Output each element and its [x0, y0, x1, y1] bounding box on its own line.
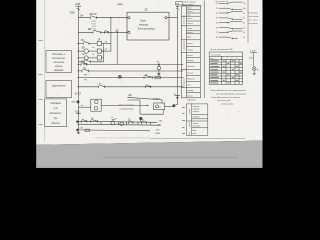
wire rung2 tail — [101, 50, 111, 52]
indicator table — [209, 52, 243, 84]
timing chart row 2 — [216, 8, 246, 10]
svg-text:автоматичн.: автоматичн. — [52, 57, 66, 60]
battery feed symbol +СВ at top of bus — [75, 2, 82, 10]
svg-text:2с: 2с — [243, 37, 245, 39]
margin zone marks — [39, 40, 43, 125]
contact on rung C — [144, 74, 152, 79]
wire: main vertical supply bus — [77, 9, 79, 131]
junction dot bottom bus F — [77, 121, 79, 123]
junction blob above rung F — [140, 117, 143, 120]
wire to bell box — [78, 106, 91, 108]
lighting riser wire — [174, 12, 177, 106]
link wire with relay РГ between rungs A and B — [157, 62, 161, 78]
svg-text:для свето: для свето — [249, 15, 260, 18]
svg-text:ОВ 2Р: ОВ 2Р — [89, 13, 97, 16]
collector wire v1 — [103, 44, 105, 62]
wire from bell box to lamp box — [101, 104, 148, 106]
contact on rung D right — [146, 85, 151, 88]
svg-text:сеть: сеть — [187, 84, 191, 86]
svg-text:ДВ: ДВ — [88, 29, 92, 31]
svg-text:свет: свет — [187, 14, 191, 16]
svg-text:5с: 5с — [243, 23, 245, 25]
svg-text:+СВ: +СВ — [158, 121, 163, 123]
page bottom rule — [150, 138, 246, 140]
wire: standby lighting rung ДЗ — [127, 95, 162, 103]
bell relay box with two coils — [91, 99, 101, 111]
svg-text:3: 3 — [231, 58, 232, 60]
bell coil ЗВ — [78, 46, 97, 53]
terminal strip table — [181, 6, 200, 98]
svg-text:объекте: объекте — [51, 122, 61, 125]
receiver table side labels — [189, 108, 191, 135]
long rung D with contact — [78, 83, 183, 88]
svg-text:схемы включ.: схемы включ. — [221, 104, 234, 106]
svg-text:для ночн. раб.: для ночн. раб. — [217, 99, 231, 102]
junction dots ladder — [78, 17, 118, 88]
relay coil box K1 — [97, 41, 101, 45]
svg-text:+СВ: +СВ — [75, 111, 80, 113]
indicator table header text — [210, 53, 237, 60]
pin labels column — [92, 21, 97, 31]
svg-text:РП: РП — [84, 80, 87, 82]
svg-text:3с: 3с — [243, 32, 245, 34]
junction вкл on bus — [72, 94, 82, 104]
svg-text:связь: связь — [189, 122, 191, 126]
ladder small labels — [82, 41, 108, 56]
svg-text:для ночной работы аэродрома: для ночной работы аэродрома — [216, 92, 247, 95]
collector wire v3 — [116, 32, 118, 64]
svg-text:сигнал: сигнал — [187, 72, 193, 74]
svg-text:4с: 4с — [243, 27, 245, 29]
svg-text:сигнал: сигнал — [187, 23, 193, 25]
long rung C — [78, 74, 183, 81]
svg-text:Вкл.: Вкл. — [193, 130, 197, 132]
svg-text:аэродромн: аэродромн — [184, 41, 186, 50]
contact pair on rung F — [91, 117, 98, 122]
svg-text:ЗВЛ: ЗВЛ — [83, 64, 88, 66]
svg-text:и Выкл.: и Выкл. — [193, 111, 201, 113]
svg-text:«Включ.»: «Включ.» — [187, 78, 195, 80]
relay coil box K2 — [97, 49, 101, 53]
page bottom rule left faint — [95, 137, 150, 139]
wire: rung ДВ to charger box — [78, 31, 127, 33]
bottom rung F — [78, 121, 158, 122]
contact above meter — [111, 117, 117, 120]
svg-text:лс: лс — [159, 107, 161, 109]
svg-text:Электропривод: Электропривод — [138, 28, 156, 31]
fuse F2 on rung H — [85, 129, 90, 131]
tick links between rungs F and G — [101, 122, 151, 126]
svg-text:Смена Включения для переключен: Смена Включения для переключения — [210, 89, 247, 92]
wire junction drop — [140, 118, 142, 122]
return wire under lamp box — [127, 100, 163, 114]
svg-text:С 200: С 200 — [250, 51, 257, 53]
svg-text:включение: включение — [184, 15, 186, 24]
pilot lamp HL1 — [252, 67, 259, 71]
svg-text:дежурн: дежурн — [153, 98, 161, 100]
wire from lamp box to riser junction — [165, 105, 173, 107]
svg-text:включ.: включ. — [187, 95, 193, 97]
svg-text:посадочн: посадочн — [184, 78, 186, 86]
svg-text:Схема Включения для перекл.: Схема Включения для перекл. — [211, 96, 241, 99]
svg-text:для соответ.: для соответ. — [183, 4, 194, 6]
arrowhead into lamp box — [147, 105, 149, 107]
svg-text:аварийн: аварийн — [54, 69, 64, 72]
svg-text:прием: прием — [189, 108, 191, 114]
svg-text:ЗУ: ЗУ — [145, 8, 149, 12]
relay coil box K3 — [97, 56, 101, 60]
timing chart row 1 — [216, 2, 246, 5]
svg-text:звк: звк — [91, 117, 94, 119]
svg-text:2: 2 — [227, 58, 228, 60]
svg-text:Цепь: Цепь — [187, 8, 191, 10]
note box 3 (left) — [45, 99, 67, 127]
wire: rung to charger box (top) — [78, 17, 127, 19]
svg-text:пускат.: пускат. — [187, 43, 193, 45]
junction dot at riser foot — [173, 105, 175, 107]
svg-text:поз.: поз. — [193, 133, 197, 135]
svg-text:предохр.: предохр. — [139, 24, 149, 27]
svg-text:8с: 8с — [243, 13, 245, 15]
gray strip below page — [36, 141, 262, 168]
svg-text:+СВ: +СВ — [75, 2, 81, 6]
tap arrow on riser — [174, 93, 181, 98]
timing chart row 8 — [216, 37, 245, 39]
long rung B with contact — [78, 68, 183, 73]
svg-text:кнопка: кнопка — [55, 65, 63, 68]
svg-text:включ.: включ. — [187, 55, 193, 57]
svg-text:включ.: включ. — [187, 11, 193, 13]
svg-text:10с: 10с — [243, 8, 246, 10]
svg-text:«Включ.»: «Включ.» — [187, 66, 195, 68]
svg-text:при: при — [54, 117, 59, 120]
svg-text:тип: тип — [210, 58, 213, 60]
wire rung3 tail — [101, 57, 103, 59]
note text right of chart — [248, 13, 260, 25]
timing chart row 7 — [216, 31, 245, 34]
lamp circle on rung G — [120, 122, 123, 125]
svg-text:1: 1 — [222, 58, 223, 60]
timing chart row 5 — [216, 21, 245, 24]
terminal strip outer rail — [203, 0, 205, 97]
note box 1 (left) — [46, 51, 72, 73]
svg-text:пускат.: пускат. — [187, 32, 193, 34]
svg-text:лк: лк — [92, 47, 94, 49]
fuse symbol +СВ at bus bottom branch — [75, 111, 81, 115]
lamp lower lead — [253, 71, 256, 75]
contact ДВ — [88, 29, 101, 33]
svg-text:питанием: питанием — [53, 61, 64, 64]
rung end labels — [158, 121, 163, 127]
terminal strip row texts — [187, 8, 195, 98]
svg-text:вкл: вкл — [189, 132, 191, 135]
scanned schematic page — [36, 0, 262, 145]
svg-text:ЗУ СТ: ЗУ СТ — [75, 94, 82, 96]
box СВЕТ at riser top — [175, 2, 182, 12]
svg-text:СВЛ: СВЛ — [249, 57, 254, 59]
contact pair 0 on rung F — [82, 119, 87, 122]
svg-text:аккумулятор: аккумулятор — [120, 108, 134, 110]
indicator table cell marks — [211, 61, 242, 84]
timing chart row 4 — [216, 18, 245, 20]
svg-text:Описание: Описание — [50, 102, 62, 105]
svg-text:Принята: Принята — [187, 100, 196, 102]
svg-text:зелен: зелен — [187, 18, 192, 20]
collector wire v2 — [110, 18, 112, 51]
receiver table texts — [193, 106, 202, 135]
svg-text:ПВ: ПВ — [82, 61, 86, 63]
svg-text:СВУ: СВУ — [70, 10, 76, 14]
svg-text:свароч.: свароч. — [187, 49, 194, 51]
svg-text:+свет: +свет — [117, 3, 125, 6]
svg-text:Разрабоч.: Разрабоч. — [249, 13, 259, 15]
timing chart row 3 — [216, 12, 245, 15]
bottom feeder rung H — [78, 129, 151, 132]
svg-text:Элем.: Элем. — [140, 20, 147, 23]
receiver table (bottom right) — [186, 104, 208, 135]
junction dot bottom bus H — [77, 129, 79, 131]
svg-text:расписание: расписание — [52, 85, 66, 88]
note box 2 (left) — [46, 81, 72, 98]
svg-text:реостат: реостат — [248, 23, 258, 25]
paper speckle — [43, 5, 256, 142]
supply voltage labels — [155, 130, 161, 135]
svg-text:аэродр.: аэродр. — [187, 90, 194, 92]
svg-text:Описание и: Описание и — [52, 53, 66, 56]
svg-text:разряд: разряд — [187, 60, 194, 62]
contact ДЛ on rung 2 — [105, 29, 120, 33]
darker seam in gray strip — [103, 157, 238, 158]
svg-text:12с: 12с — [243, 3, 246, 5]
svg-text:Прибор: Прибор — [193, 116, 201, 118]
timing chart row 6 — [216, 27, 245, 29]
svg-text:реле: реле — [187, 37, 191, 39]
long rung A with contact — [78, 61, 183, 66]
svg-text:6с: 6с — [243, 18, 245, 20]
meter circle on rung F — [111, 121, 115, 125]
pilot lamp feeder С200 — [249, 51, 257, 67]
page frame margin line — [44, 0, 46, 142]
svg-text:ЗВ: ЗВ — [82, 46, 85, 49]
svg-text:автоматич.: автоматич. — [49, 112, 62, 115]
svg-text:№ часовой: № часовой — [211, 53, 221, 56]
charger unit box ЗУ — [127, 8, 169, 40]
lamp transformer box — [154, 103, 165, 110]
contact ОВ on top rung — [80, 13, 97, 19]
svg-text:обеспеч.: обеспеч. — [193, 126, 202, 128]
margin marks left of receiver table — [182, 107, 185, 134]
contact ЗВЛ rung4 — [78, 60, 103, 66]
wire rung1 tail — [101, 43, 111, 45]
svg-text:для: для — [54, 107, 59, 110]
contact cluster 2 on rung F right — [141, 119, 146, 124]
chart right border rule — [247, 0, 249, 43]
svg-text:±24В: ±24В — [155, 133, 161, 135]
bus bottom arrow — [77, 130, 80, 134]
contact cluster 1 on rung F right — [128, 119, 133, 124]
wire: from charger box to lighting riser — [167, 17, 177, 19]
bell symbol on rung C — [118, 75, 121, 78]
lamp coil row3 — [78, 56, 97, 60]
svg-text:Сроки указателей РВ: Сроки указателей РВ — [210, 48, 233, 51]
terminal strip side labels (rotated) — [184, 15, 186, 86]
svg-text:+СВ: +СВ — [79, 127, 84, 129]
bottom rung G — [78, 124, 161, 125]
contact ЛК rung — [78, 39, 100, 45]
svg-text:4: 4 — [236, 58, 237, 60]
svg-text:вкл. сигн.: вкл. сигн. — [249, 19, 259, 21]
terminal strip table header — [182, 1, 201, 5]
resistor R1 on rung C — [155, 76, 161, 79]
